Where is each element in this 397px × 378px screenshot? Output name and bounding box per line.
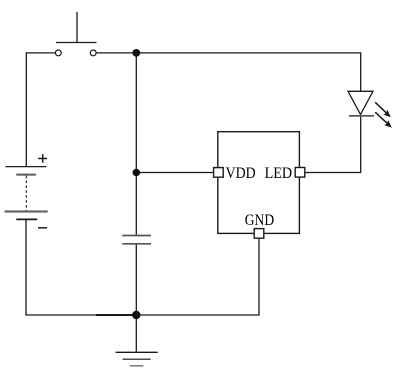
svg-text:GND: GND [245,212,274,229]
svg-text:VDD: VDD [226,165,256,182]
svg-text:LED: LED [265,165,293,182]
